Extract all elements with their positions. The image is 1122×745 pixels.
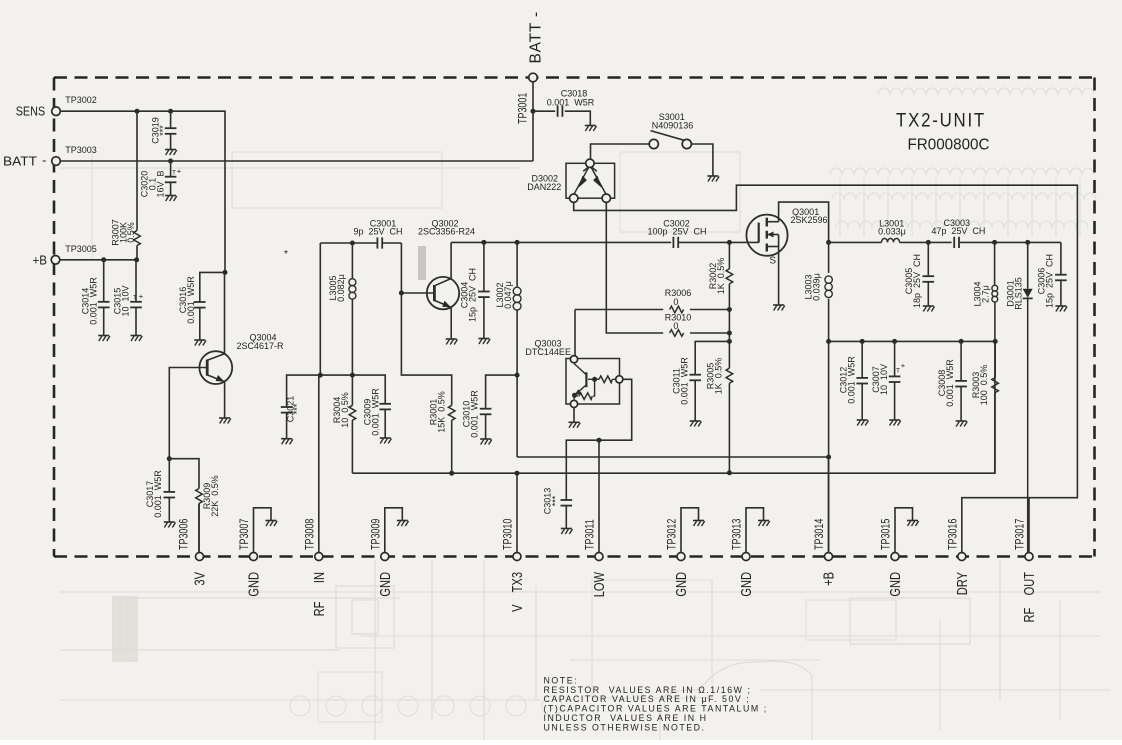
node bus/R3005	[727, 470, 732, 475]
capacitor C3001	[353, 218, 402, 248]
switch S3001 N4090136	[649, 112, 693, 149]
svg-text:RLS135: RLS135	[1013, 277, 1023, 310]
svg-text:TP3003: TP3003	[65, 145, 97, 155]
svg-text:10 10V: 10 10V	[879, 364, 889, 395]
ground (C3014)	[98, 336, 110, 342]
capacitor C3007 tantalum	[871, 341, 906, 420]
ground (C3008)	[956, 421, 968, 427]
ground (Q3004 emitter)	[219, 418, 231, 424]
svg-text:***: ***	[158, 125, 168, 136]
resistor R3010	[665, 312, 730, 336]
svg-text:*: *	[284, 249, 288, 260]
svg-text:0.001 W5R: 0.001 W5R	[186, 276, 196, 324]
wire Q3001 source	[778, 247, 780, 306]
border dashed box (right edge)	[1093, 78, 1096, 557]
svg-text:TP3006: TP3006	[179, 518, 191, 550]
wire R3006 to Q3003	[574, 310, 576, 356]
svg-text:0.001 W5R: 0.001 W5R	[153, 470, 163, 518]
node L3002 / C3010	[515, 373, 520, 378]
test point TP3015 (GND)	[881, 518, 904, 596]
svg-text:DAN222: DAN222	[527, 182, 561, 192]
capacitor C3012	[839, 341, 869, 420]
wire +B feed line	[517, 456, 829, 458]
node L3003 bottom	[826, 339, 831, 344]
svg-text:22K 0.5%: 22K 0.5%	[210, 475, 220, 517]
MOSFET Q3001 2SK2596	[746, 207, 827, 267]
svg-text:0.001 W5R: 0.001 W5R	[470, 390, 480, 438]
svg-text:0.001 W5R: 0.001 W5R	[371, 388, 381, 436]
svg-text:TP3008: TP3008	[304, 518, 316, 550]
svg-text:10 10V: 10 10V	[121, 285, 131, 316]
node C3007 top	[892, 339, 897, 344]
node D3001 top	[1025, 240, 1030, 245]
svg-text:TP3015: TP3015	[881, 518, 893, 550]
label SENS	[16, 104, 46, 119]
label BATT - (top)	[528, 11, 545, 63]
svg-text:TP3007: TP3007	[239, 518, 251, 550]
svg-text:TP3002: TP3002	[65, 95, 97, 105]
label +B	[33, 253, 48, 268]
inductor L3001	[878, 218, 951, 242]
svg-text:GND: GND	[245, 572, 262, 597]
wire TP3017 lead (RF OUT)	[1028, 498, 1030, 552]
svg-text:T: T	[172, 170, 176, 177]
capacitor C3015 tantalum	[113, 260, 144, 336]
node drain/L3003	[826, 240, 831, 245]
ground (C3013)	[561, 529, 573, 535]
wire DRY net (D3002 to TP3016)	[574, 185, 1078, 552]
capacitor C3009	[363, 388, 392, 438]
svg-text:16V B: 16V B	[156, 170, 166, 197]
inductor L3004	[973, 242, 998, 341]
ground (C3020)	[165, 196, 177, 202]
svg-text:+: +	[177, 167, 182, 176]
capacitor C3018	[533, 89, 595, 126]
svg-text:10 0.5%: 10 0.5%	[340, 392, 350, 428]
note block	[544, 676, 768, 733]
test point TP3011 (LOW)	[585, 519, 608, 597]
ground (C3018)	[585, 126, 597, 132]
test point TP3012 (GND)	[667, 518, 690, 596]
wire Q3002 base drop	[401, 243, 451, 398]
svg-text:+: +	[901, 361, 906, 370]
test point TP3017 (RF OUT)	[1015, 518, 1038, 622]
svg-text:BATT: BATT	[3, 154, 37, 169]
ground (TP3012)	[693, 521, 705, 527]
svg-text:0.001 W5R: 0.001 W5R	[89, 277, 99, 325]
svg-text:100 0.5%: 100 0.5%	[979, 365, 989, 406]
transistor Q3003 DTC144EE	[525, 338, 622, 407]
svg-text:0.001 W5R: 0.001 W5R	[547, 98, 595, 108]
terminal SENS TP3002	[52, 95, 97, 115]
node SENS/R3007	[135, 109, 140, 114]
wire +B rail	[60, 259, 137, 261]
test point TP3013 (GND)	[732, 518, 755, 596]
node Q3002 base	[399, 291, 404, 296]
wire Q3003 emitter to ground	[573, 408, 575, 423]
svg-text:2SC4617-R: 2SC4617-R	[236, 341, 284, 351]
svg-text:-: -	[42, 153, 46, 168]
node +B/C3015/R3007	[134, 257, 139, 262]
svg-text:T: T	[133, 295, 137, 302]
svg-text:+B: +B	[33, 253, 48, 268]
ground (Q3002 emitter)	[446, 339, 458, 345]
ground (C3021)	[281, 439, 293, 445]
svg-text:2SC3356-R24: 2SC3356-R24	[418, 226, 475, 236]
svg-text:15K 0.5%: 15K 0.5%	[437, 391, 447, 433]
wire TP3012 ground bracket	[681, 508, 699, 553]
wire TP3013 ground bracket	[746, 508, 764, 553]
node R3002 top	[727, 240, 732, 245]
svg-text:47p 25V CH: 47p 25V CH	[931, 226, 985, 236]
node R3006 right	[727, 307, 732, 312]
svg-text:V TX3: V TX3	[508, 572, 525, 612]
node C3011 tap	[727, 339, 732, 344]
node TP3001/C3018	[531, 109, 536, 114]
node L3004 top	[992, 240, 997, 245]
ground (TP3015)	[907, 521, 919, 527]
wire TP3014 riser	[828, 341, 830, 552]
ground (C3006)	[1055, 306, 1067, 312]
ground (C3015)	[131, 336, 143, 342]
capacitor C3021	[281, 375, 321, 439]
svg-text:0.047μ: 0.047μ	[503, 281, 513, 309]
subtitle FR000800C	[908, 137, 990, 154]
node L3002 top	[515, 240, 520, 245]
wire SENS rail	[60, 111, 225, 272]
resistor R3001	[429, 391, 456, 473]
ground (S3001)	[707, 176, 719, 182]
node L3005 top	[350, 241, 355, 246]
border dashed box (top edge)	[54, 76, 1095, 79]
svg-text:100p 25V CH: 100p 25V CH	[647, 226, 706, 236]
svg-text:15p 25V CH: 15p 25V CH	[468, 268, 478, 322]
capacitor C3020 tantalum	[140, 161, 182, 198]
test point TP3008 (RF IN)	[304, 518, 327, 616]
svg-text:TX2-UNIT: TX2-UNIT	[896, 111, 986, 132]
wire RF out line	[829, 241, 882, 243]
capacitor C3013	[543, 488, 573, 529]
svg-text:0.033μ: 0.033μ	[878, 226, 906, 236]
svg-text:GND: GND	[737, 572, 754, 597]
test point TP3010 (V TX3)	[503, 518, 526, 612]
ground (C3019)	[165, 150, 177, 156]
wire Q3004 emitter	[224, 382, 226, 418]
svg-text:TP3010: TP3010	[503, 518, 515, 550]
wire Q3002 base lead	[401, 292, 434, 294]
svg-text:TP3009: TP3009	[370, 518, 382, 550]
ground (Q3003)	[569, 422, 581, 428]
svg-text:TP3016: TP3016	[947, 518, 959, 550]
svg-text:2SK2596: 2SK2596	[790, 215, 827, 225]
node bus/R3001	[449, 471, 454, 476]
svg-text:DRY: DRY	[953, 572, 970, 595]
svg-text:1K 0.5%: 1K 0.5%	[714, 358, 724, 395]
transistor Q3004 2SC4617-R	[199, 333, 284, 385]
wire V-TX3 bus	[352, 341, 995, 473]
resistor R3007	[111, 111, 141, 260]
node R3003 top / L3004 bottom	[993, 339, 998, 344]
node bus/TP3010	[515, 471, 520, 476]
svg-text:GND: GND	[376, 572, 393, 597]
capacitor C3006	[1037, 242, 1067, 308]
capacitor C3017	[145, 459, 175, 522]
svg-text:0.082μ: 0.082μ	[336, 274, 346, 302]
test point TP3007 (GND)	[239, 518, 262, 596]
ground (TP3009)	[397, 521, 409, 527]
dual diode D3002 DAN222	[527, 159, 614, 202]
resistor R3005	[706, 302, 733, 473]
ground (C3016)	[194, 340, 206, 346]
node C3012 top	[860, 339, 865, 344]
svg-text:GND: GND	[672, 572, 689, 597]
svg-text:LOW: LOW	[590, 571, 607, 597]
wire RF-IN riser	[319, 243, 321, 375]
ground (C3009)	[380, 438, 392, 444]
stray mark (print artifact)	[284, 249, 288, 260]
svg-text:TP3011: TP3011	[585, 519, 597, 550]
resistor R3009	[169, 459, 220, 553]
svg-text:18p 25V CH: 18p 25V CH	[912, 254, 922, 308]
svg-text:TP3012: TP3012	[667, 518, 679, 550]
svg-text:0: 0	[673, 297, 678, 307]
transistor Q3002 2SC3356-R24	[418, 218, 475, 309]
wire TP3011 drop	[598, 440, 600, 552]
node L3005 bottom / R3004	[350, 373, 355, 378]
ground (TP3007)	[266, 521, 278, 527]
terminal +B TP3005	[51, 244, 97, 264]
test point TP3009 (GND)	[370, 518, 393, 596]
node C3016 tap	[223, 270, 228, 275]
wire bias bus left	[320, 375, 385, 403]
capacitor C3016	[178, 272, 225, 340]
svg-text:DTC144EE: DTC144EE	[525, 347, 571, 357]
svg-text:FR000800C: FR000800C	[908, 137, 990, 154]
svg-text:0.001 W5R: 0.001 W5R	[945, 359, 955, 407]
wire TP3010 drop	[516, 473, 518, 552]
svg-text:TP3014: TP3014	[814, 518, 826, 550]
resistor R3001 lead	[451, 398, 453, 405]
node TP3011 tap	[597, 438, 602, 443]
border dashed box (bottom edge)	[54, 555, 1095, 558]
capacitor C3005	[904, 242, 934, 308]
resistor R3002	[708, 258, 733, 302]
svg-text:SENS: SENS	[16, 104, 46, 119]
wire RF line right segment	[451, 241, 671, 243]
wire S3001 right	[691, 144, 713, 176]
wire Q3002 emitter	[450, 308, 452, 340]
node Q3004 base bias	[167, 456, 172, 461]
wire RF line left segment	[320, 242, 377, 244]
svg-text:T: T	[896, 368, 900, 375]
svg-text:N4090136: N4090136	[652, 120, 694, 130]
ground (C3011)	[690, 421, 702, 427]
svg-text:TP3001: TP3001	[518, 92, 530, 124]
svg-text:0.001 W5R: 0.001 W5R	[680, 357, 690, 405]
capacitor C3011	[672, 341, 730, 421]
capacitor C3003	[931, 218, 1061, 248]
ground (C3012)	[857, 420, 869, 426]
terminal TP3001	[518, 73, 538, 124]
svg-text:+B: +B	[820, 572, 837, 586]
wire Q3002 collector	[450, 242, 452, 278]
node C3005 top	[926, 240, 931, 245]
svg-text:+: +	[139, 292, 144, 301]
svg-text:S: S	[769, 256, 776, 267]
capacitor C3002	[647, 218, 706, 248]
ground (C3017)	[164, 522, 176, 528]
svg-text:3V: 3V	[191, 572, 208, 586]
node +B / TP3014	[826, 455, 831, 460]
wire TP3007 ground bracket	[254, 508, 272, 553]
wire +B bus	[829, 340, 996, 342]
svg-text:0.001 W5R: 0.001 W5R	[847, 356, 857, 404]
svg-text:***: ***	[292, 403, 302, 414]
border dashed box (left edge)	[53, 78, 56, 557]
svg-text:0: 0	[673, 321, 678, 331]
title TX2-UNIT	[896, 111, 986, 132]
svg-text:9p 25V CH: 9p 25V CH	[353, 226, 402, 236]
svg-text:TP3013: TP3013	[732, 518, 744, 550]
wire C3002 to gate	[678, 241, 759, 243]
svg-text:RF IN: RF IN	[310, 572, 327, 616]
node RF-IN / bias bus	[318, 373, 323, 378]
ground (C3005)	[923, 306, 935, 312]
wire BATT rail	[60, 160, 533, 162]
test point TP3014 (+B)	[814, 518, 837, 586]
diode D3001 RLS135	[1005, 242, 1032, 552]
node SENS/C3019	[168, 109, 173, 114]
wire Q3001 drain loop	[779, 202, 829, 242]
svg-text:GND: GND	[886, 572, 903, 597]
svg-text:TP3005: TP3005	[65, 244, 97, 254]
capacitor C3010	[462, 375, 518, 439]
node R3010 right	[727, 331, 732, 336]
svg-text:2.7μ: 2.7μ	[981, 285, 991, 303]
node C3008 top	[959, 339, 964, 344]
resistor R3003	[971, 341, 999, 473]
svg-text:TP3017: TP3017	[1015, 518, 1027, 550]
label BATT -	[3, 153, 46, 169]
svg-text:RF OUT: RF OUT	[1020, 572, 1037, 623]
inductor L3003	[804, 242, 833, 341]
ground (C3010)	[480, 439, 492, 445]
wire TP3008 riser (RF IN)	[318, 375, 320, 552]
svg-text:15p 25V CH: 15p 25V CH	[1045, 254, 1055, 308]
wire TP3006 lead	[198, 504, 200, 553]
wire Q3004 collector	[224, 272, 226, 354]
ground (C3004)	[478, 339, 490, 345]
capacitor C3019	[151, 111, 177, 149]
svg-text:0.5%: 0.5%	[126, 222, 136, 243]
capacitor C3014	[81, 260, 110, 336]
resistor R3006	[575, 288, 729, 313]
wire D3002 right drop	[606, 202, 663, 333]
svg-text:0.039μ: 0.039μ	[812, 273, 822, 301]
node +B/C3014	[101, 257, 106, 262]
wire TP3001 drop	[532, 82, 534, 161]
ground (C3007)	[889, 420, 901, 426]
test point TP3016 (DRY)	[947, 518, 970, 595]
ground (Q3001 source)	[773, 305, 785, 311]
wire Q3004 base	[169, 368, 207, 459]
capacitor C3008	[937, 341, 967, 421]
resistor R3002 lead	[728, 242, 730, 268]
svg-text:1K 0.5%: 1K 0.5%	[716, 258, 726, 295]
terminal BATT TP3003	[52, 145, 97, 165]
capacitor C3004	[460, 242, 490, 338]
resistor R3004	[332, 375, 356, 473]
wire TP3014 lead	[828, 457, 830, 552]
wire S3001 left	[591, 144, 650, 159]
svg-text:UNLESS OTHERWISE NOTED.: UNLESS OTHERWISE NOTED.	[544, 722, 706, 732]
inductor L3002	[495, 242, 521, 457]
node C3004 top	[481, 240, 486, 245]
wire TP3015 ground bracket	[895, 508, 913, 553]
wire Q3003 base loop	[566, 379, 631, 499]
svg-text:BATT -: BATT -	[528, 11, 545, 63]
node BATT/C3020	[168, 159, 173, 164]
svg-text:***: ***	[551, 495, 561, 506]
test point TP3006 (3V)	[179, 518, 208, 585]
ground (TP3013)	[758, 521, 770, 527]
wire TP3009 ground bracket	[385, 508, 403, 553]
inductor L3005	[328, 243, 356, 375]
